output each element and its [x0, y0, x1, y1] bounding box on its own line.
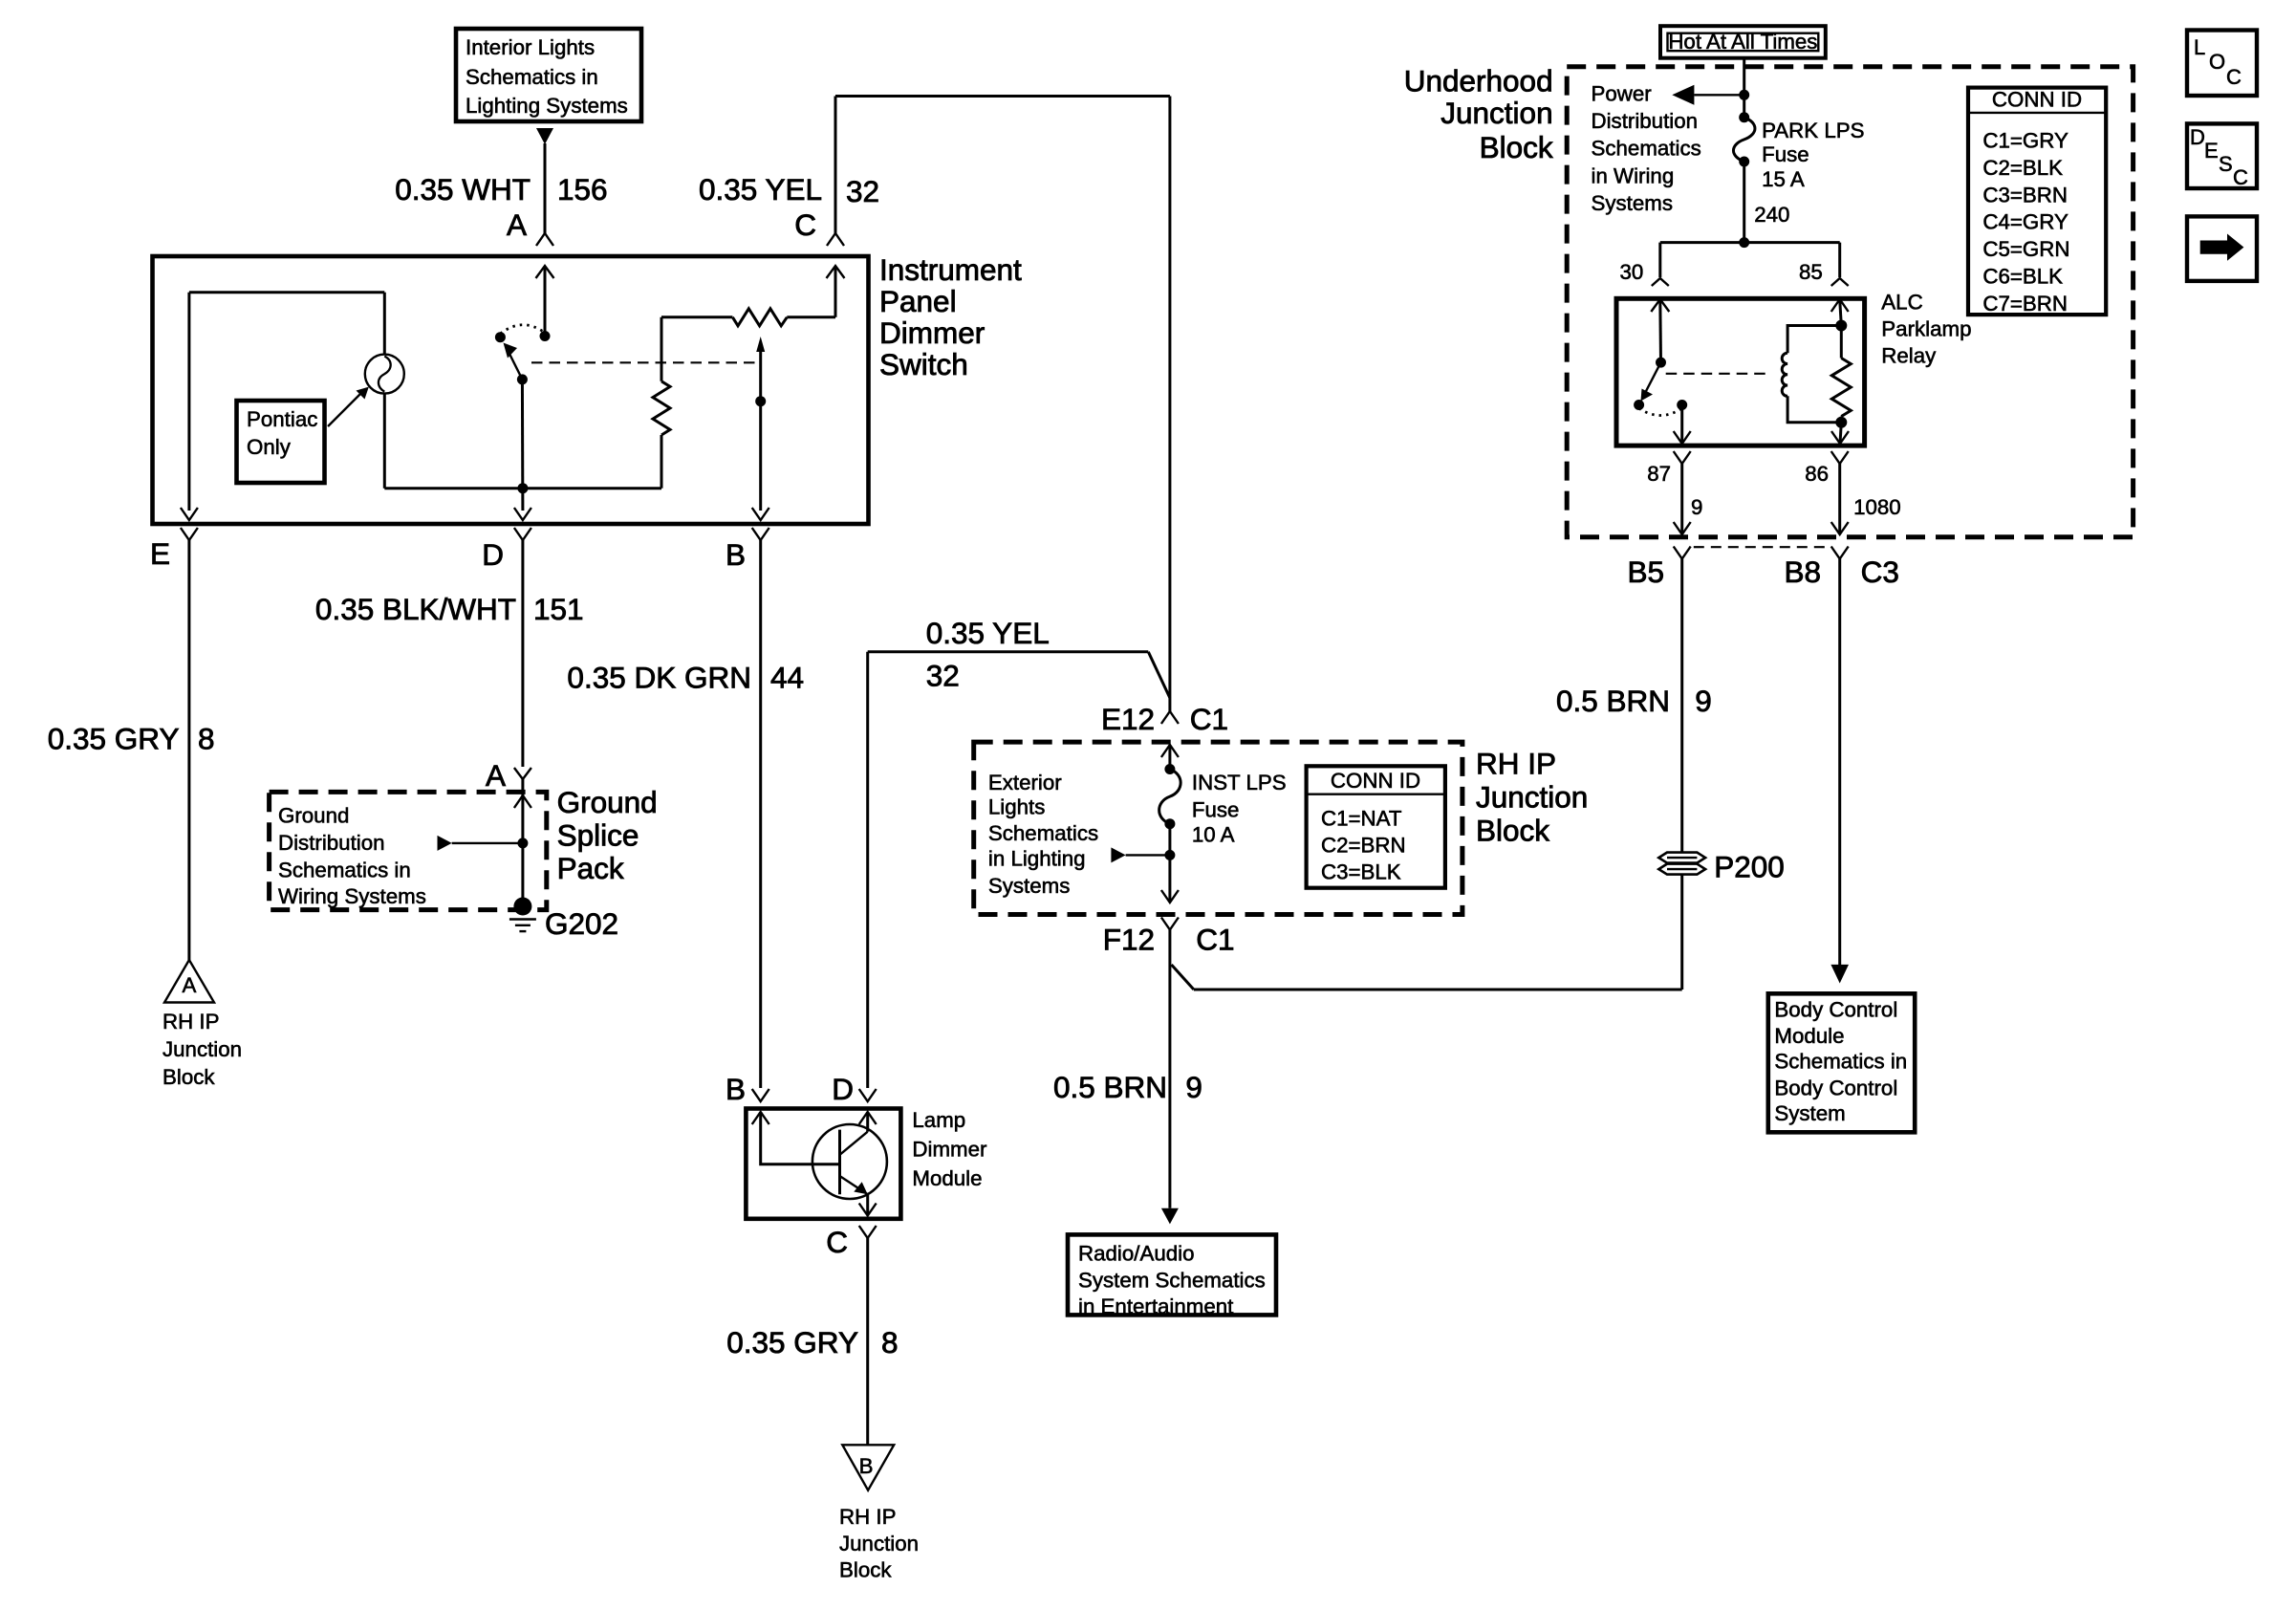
svg-text:E: E: [150, 536, 170, 571]
svg-text:9: 9: [1691, 495, 1702, 519]
svg-text:Relay: Relay: [1881, 344, 1937, 368]
svg-text:Block: Block: [839, 1558, 892, 1582]
svg-text:0.35 WHT: 0.35 WHT: [395, 172, 531, 207]
svg-text:Schematics: Schematics: [1592, 137, 1701, 161]
svg-text:Hot At All Times: Hot At All Times: [1668, 30, 1817, 54]
svg-text:C5=GRN: C5=GRN: [1982, 237, 2069, 261]
svg-text:Schematics in: Schematics in: [1774, 1050, 1907, 1074]
svg-text:System Schematics: System Schematics: [1078, 1268, 1266, 1292]
svg-text:PARK LPS: PARK LPS: [1762, 119, 1864, 142]
svg-text:C6=BLK: C6=BLK: [1982, 265, 2063, 289]
svg-text:Junction: Junction: [839, 1532, 919, 1556]
svg-text:32: 32: [926, 658, 960, 692]
svg-text:Instrument: Instrument: [879, 252, 1022, 287]
svg-text:Module: Module: [912, 1166, 982, 1190]
svg-text:Pack: Pack: [557, 851, 624, 885]
svg-text:Junction: Junction: [1440, 96, 1552, 130]
svg-text:Body Control: Body Control: [1774, 1076, 1897, 1099]
svg-text:P200: P200: [1714, 849, 1785, 883]
svg-text:Schematics in: Schematics in: [466, 65, 598, 89]
svg-text:Panel: Panel: [879, 284, 957, 318]
svg-text:C3=BRN: C3=BRN: [1982, 183, 2068, 207]
svg-text:C1=GRY: C1=GRY: [1982, 129, 2069, 153]
svg-text:Schematics: Schematics: [988, 821, 1098, 845]
svg-text:Ground: Ground: [278, 803, 349, 827]
svg-text:Splice: Splice: [557, 817, 639, 852]
svg-text:Radio/Audio: Radio/Audio: [1078, 1242, 1194, 1266]
svg-text:CONN ID: CONN ID: [1331, 769, 1420, 793]
svg-text:30: 30: [1619, 260, 1643, 284]
svg-text:Underhood: Underhood: [1404, 64, 1553, 98]
svg-text:0.35 GRY: 0.35 GRY: [48, 722, 180, 756]
svg-text:0.35 BLK/WHT: 0.35 BLK/WHT: [315, 592, 516, 626]
svg-text:Body Control: Body Control: [1774, 997, 1897, 1021]
svg-text:B: B: [726, 1072, 746, 1106]
svg-text:Only: Only: [247, 435, 292, 459]
svg-text:151: 151: [533, 592, 584, 626]
svg-text:INST LPS: INST LPS: [1192, 771, 1287, 794]
svg-text:Ground: Ground: [557, 785, 658, 819]
svg-text:C: C: [794, 207, 816, 242]
svg-text:9: 9: [1695, 684, 1712, 718]
svg-text:Switch: Switch: [879, 347, 968, 381]
svg-text:C7=BRN: C7=BRN: [1982, 292, 2068, 315]
svg-text:1080: 1080: [1853, 495, 1901, 519]
svg-text:CONN ID: CONN ID: [1992, 88, 2082, 112]
svg-text:S: S: [2219, 152, 2233, 176]
svg-text:Wiring Systems: Wiring Systems: [278, 884, 426, 908]
svg-text:15 A: 15 A: [1762, 167, 1805, 191]
svg-text:Fuse: Fuse: [1192, 798, 1240, 822]
svg-text:Pontiac: Pontiac: [247, 407, 317, 431]
svg-text:C1=NAT: C1=NAT: [1321, 807, 1402, 831]
svg-text:32: 32: [846, 174, 879, 208]
svg-text:C3: C3: [1861, 555, 1899, 589]
svg-text:A: A: [486, 758, 506, 793]
svg-text:44: 44: [770, 661, 804, 695]
svg-text:Lamp: Lamp: [912, 1108, 965, 1132]
svg-text:C1: C1: [1190, 702, 1228, 736]
svg-text:C4=GRY: C4=GRY: [1982, 210, 2069, 234]
svg-text:A: A: [182, 973, 196, 997]
svg-text:C2=BRN: C2=BRN: [1321, 834, 1406, 858]
svg-text:Dimmer: Dimmer: [879, 315, 985, 350]
svg-text:ALC: ALC: [1881, 291, 1922, 315]
svg-text:C: C: [826, 1225, 848, 1259]
svg-text:9: 9: [1185, 1070, 1202, 1104]
svg-text:B: B: [726, 537, 746, 572]
svg-text:B8: B8: [1784, 555, 1821, 589]
svg-text:F12: F12: [1103, 923, 1155, 957]
svg-text:L: L: [2194, 35, 2205, 59]
svg-text:156: 156: [557, 172, 608, 207]
svg-text:87: 87: [1647, 462, 1671, 486]
svg-text:240: 240: [1754, 203, 1789, 227]
svg-text:System: System: [1774, 1101, 1845, 1125]
svg-text:Interior Lights: Interior Lights: [466, 35, 595, 59]
svg-text:86: 86: [1805, 462, 1829, 486]
svg-text:G202: G202: [545, 906, 618, 941]
svg-text:Systems: Systems: [1592, 191, 1674, 215]
svg-text:E: E: [2204, 139, 2219, 163]
svg-text:E12: E12: [1101, 702, 1155, 736]
svg-text:0.5 BRN: 0.5 BRN: [1053, 1070, 1167, 1104]
svg-text:0.5 BRN: 0.5 BRN: [1556, 684, 1670, 718]
svg-text:RH IP: RH IP: [162, 1010, 219, 1033]
svg-text:Schematics in: Schematics in: [278, 859, 411, 882]
svg-text:Block: Block: [1476, 813, 1549, 847]
svg-text:Parklamp: Parklamp: [1881, 317, 1971, 341]
svg-text:D: D: [2190, 125, 2205, 149]
svg-text:in Lighting: in Lighting: [988, 846, 1086, 870]
svg-text:Distribution: Distribution: [278, 831, 385, 855]
svg-text:B: B: [859, 1454, 874, 1478]
svg-text:Distribution: Distribution: [1592, 109, 1699, 133]
svg-text:0.35 DK GRN: 0.35 DK GRN: [567, 661, 751, 695]
svg-text:C2=BLK: C2=BLK: [1982, 156, 2063, 180]
svg-text:C3=BLK: C3=BLK: [1321, 860, 1401, 884]
svg-text:10 A: 10 A: [1192, 823, 1235, 847]
svg-text:in Wiring: in Wiring: [1592, 163, 1675, 187]
svg-text:A: A: [507, 207, 527, 242]
svg-text:O: O: [2209, 50, 2225, 74]
svg-text:0.35 GRY: 0.35 GRY: [726, 1325, 858, 1360]
svg-text:Fuse: Fuse: [1762, 142, 1809, 166]
svg-text:Block: Block: [1480, 130, 1553, 164]
svg-text:Lights: Lights: [988, 794, 1046, 818]
svg-text:8: 8: [881, 1325, 899, 1360]
svg-text:in Entertainment: in Entertainment: [1078, 1295, 1234, 1318]
svg-text:85: 85: [1799, 260, 1823, 284]
svg-text:RH IP: RH IP: [839, 1505, 896, 1529]
svg-text:Module: Module: [1774, 1024, 1844, 1048]
svg-text:Power: Power: [1592, 82, 1653, 106]
svg-text:Block: Block: [162, 1065, 215, 1089]
svg-text:C: C: [2226, 65, 2242, 89]
svg-text:Junction: Junction: [162, 1037, 242, 1061]
svg-text:D: D: [832, 1072, 854, 1106]
svg-text:B5: B5: [1627, 555, 1664, 589]
svg-text:0.35 YEL: 0.35 YEL: [926, 616, 1050, 650]
svg-text:Lighting Systems: Lighting Systems: [466, 94, 628, 118]
svg-text:Dimmer: Dimmer: [912, 1138, 987, 1162]
svg-text:Systems: Systems: [988, 874, 1071, 898]
svg-text:C1: C1: [1196, 923, 1234, 957]
svg-text:Junction: Junction: [1476, 779, 1588, 814]
svg-text:D: D: [482, 537, 504, 572]
svg-text:RH IP: RH IP: [1476, 747, 1556, 781]
svg-text:Exterior: Exterior: [988, 771, 1062, 794]
svg-text:8: 8: [198, 722, 215, 756]
svg-text:C: C: [2233, 165, 2248, 189]
svg-text:0.35 YEL: 0.35 YEL: [699, 172, 822, 207]
